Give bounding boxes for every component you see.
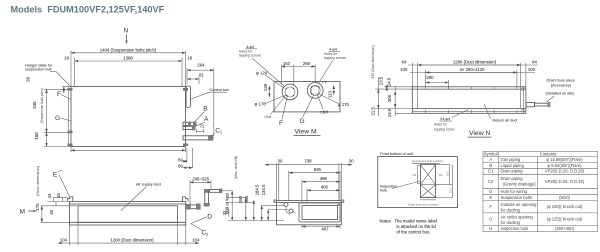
svg-text:738: 738 [304,158,312,163]
svg-text:134.5: 134.5 [261,184,266,195]
table frame [483,151,598,231]
drain pipe fittings [187,204,191,210]
unit body outline (front) [70,202,186,226]
svg-text:1200 (Duct dimension): 1200 (Duct dimension) [110,237,154,242]
unit body outline (plan) [71,87,186,147]
svg-text:530: 530 [32,101,37,109]
inset frame [378,157,458,208]
table text [484,151,585,231]
dim 1404 (Suspension bolts pitch) [71,52,186,54]
dim 280 (view N) [426,82,449,84]
square 90 knockout [312,87,319,94]
svg-text:28: 28 [26,77,31,82]
svg-text:23.5: 23.5 [445,171,449,177]
dim 28 (left) [63,87,65,94]
svg-text:18: 18 [64,56,69,61]
svg-text:30: 30 [278,158,283,163]
air supply duct flange [78,206,178,223]
side strip [418,166,421,184]
svg-text:264: 264 [197,63,205,68]
unit outline (view N) [412,87,526,114]
hanger bracket left (side) [274,200,277,202]
svg-text:Return air duct: Return air duct [493,118,519,122]
top band line [70,203,186,205]
svg-text:of the control box.: of the control box. [396,229,430,234]
svg-text:hole: hole [380,189,387,193]
svg-text:635: 635 [314,167,322,172]
column line value [537,157,539,232]
duct side edges [417,89,419,108]
svg-text:Air outlet opening: Air outlet opening [501,214,534,219]
svg-text:A: A [489,157,492,162]
svg-text:Contents: Contents [540,151,557,156]
knockout F circle outer [282,84,298,100]
svg-text:(M10): (M10) [559,195,570,200]
dim 152 / 265 [281,66,315,68]
svg-text:205: 205 [387,94,392,102]
drain riser pipe [205,192,209,206]
dims 59/69 below plan [186,148,188,162]
svg-text:104: 104 [60,237,68,242]
svg-text:(Installed on site): (Installed on site) [546,92,576,96]
dim 81 [187,78,199,80]
knockout F circle inner (dashed) [285,87,295,97]
svg-text:View N: View N [469,130,490,137]
svg-text:18: 18 [187,56,192,61]
svg-text:100: 100 [528,67,536,72]
svg-text:250: 250 [244,195,249,203]
svg-text:265: 265 [303,61,311,66]
svg-text:C1: C1 [488,169,494,174]
svg-text:Models FDUM100VF2,125VF,140VF: Models FDUM100VF2,125VF,140VF [11,4,165,14]
lid latch [338,204,340,206]
svg-text:Suspension bolts: Suspension bolts [501,195,533,200]
svg-text:(Suspension bolts position): (Suspension bolts position) [412,159,443,163]
svg-text:15: 15 [56,193,61,198]
svg-text:468: 468 [320,176,328,181]
unit body outline (side) [276,201,341,225]
dim 64/1280/64 (top) [408,64,538,66]
svg-text:64: 64 [532,60,537,65]
control box (plan) [186,86,191,108]
svg-text:Outside air opening: Outside air opening [501,202,538,207]
knockout G circle outer [307,83,323,99]
svg-text:(450×450): (450×450) [555,226,575,231]
svg-text:30: 30 [349,158,354,163]
svg-text:100: 100 [400,67,408,72]
svg-text:Drain piping: Drain piping [501,176,524,181]
svg-text:43: 43 [47,193,52,198]
svg-text:69: 69 [178,164,183,169]
svg-text:is attached on the lid: is attached on the lid [396,224,436,229]
svg-text:Air supply duct: Air supply duct [136,183,162,187]
svg-text:170: 170 [35,203,40,211]
svg-text:1404 (Suspension bolts pitch): 1404 (Suspension bolts pitch) [100,47,157,52]
row lines [483,156,598,158]
bottom dim line of plan view [71,149,186,151]
svg-text:tapping screw: tapping screw [434,128,455,132]
hanger bracket left (front) [67,197,73,202]
svg-text:1368: 1368 [123,56,133,61]
tapping holes top row [425,87,427,89]
svg-text:for ducting: for ducting [501,207,521,212]
svg-text:71: 71 [200,124,205,129]
svg-text:Hole: Hole [265,115,272,119]
tapping holes bottom row [425,110,427,113]
svg-text:45: 45 [49,209,54,214]
svg-text:139: 139 [263,83,268,91]
svg-text:295~325: 295~325 [192,176,209,181]
dim 467 (bottom of side view) [302,226,340,228]
svg-text:4-φ4: 4-φ4 [246,45,254,49]
svg-text:From bottom of unit: From bottom of unit [380,152,414,156]
ext lines left of view N [375,88,412,90]
drain stub (front, right) [186,205,199,209]
drain hose piece (view N) [523,87,525,114]
svg-text:φ 170: φ 170 [338,102,350,107]
svg-text:23.5: 23.5 [378,76,383,85]
svg-text:Drain hose piece: Drain hose piece [547,79,576,83]
hanger bracket right (side) [341,200,344,202]
svg-text:suspension bolt: suspension bolt [25,68,52,72]
svg-text:E: E [489,195,492,200]
svg-text:280: 280 [238,195,243,203]
svg-text:152: 152 [283,61,291,66]
flange top band [412,88,526,90]
hanger plate bottom-right [183,144,188,147]
piping stub A (plan) [183,126,195,129]
svg-text:(φ 150)( Knock out): (φ 150)( Knock out) [547,204,583,209]
knockout G circle inner (dashed) [310,85,320,95]
dim 468 [302,181,340,183]
svg-text:B: B [489,163,492,168]
svg-text:280: 280 [426,75,434,80]
side panel rect (view M) [274,82,340,112]
svg-text:Hole for wiring: Hole for wiring [501,189,528,194]
svg-text:(Accessory): (Accessory) [551,84,572,88]
svg-text:(Drain hose piece position): (Drain hose piece position) [408,203,439,207]
svg-text:Holes for: Holes for [434,123,448,127]
svg-text:for ducting: for ducting [501,220,521,225]
svg-text:D: D [207,213,212,220]
svg-text:□90: □90 [321,109,329,114]
dim 635 [289,172,340,174]
svg-text:(Duct dimension): (Duct dimension) [35,165,40,196]
svg-text:184.5: 184.5 [254,184,259,195]
tapping screw holes F [286,88,288,90]
svg-text:Drain piping: Drain piping [501,169,524,174]
svg-text:C1: C1 [439,173,443,177]
drain top horizontal pipe [210,189,220,192]
svg-text:(Suspension bolts pitch): (Suspension bolts pitch) [40,88,44,123]
svg-text:E: E [53,172,58,179]
piping circles (side) [284,203,288,207]
dims 30/738/30 (top of side view) [265,164,352,166]
svg-text:21.5: 21.5 [449,187,453,193]
svg-text:C1: C1 [413,173,417,177]
bottom dims 104 / 1200 / 104 [69,225,71,245]
hanger plate top-left [68,88,73,91]
svg-text:View M: View M [295,128,317,135]
svg-text:21.5: 21.5 [371,107,376,116]
tapping screw holes G [311,86,313,88]
svg-text:405: 405 [321,185,329,190]
hanger plate top-right [183,88,188,91]
svg-text:4× 280=1120: 4× 280=1120 [459,67,485,72]
svg-text:24.5: 24.5 [387,77,392,86]
svg-text:H: H [489,226,492,231]
svg-text:1280 (Duct dimension): 1280 (Duct dimension) [453,60,497,65]
svg-text:235 (Duct dimension): 235 (Duct dimension) [371,45,375,78]
hanger bracket right (front) [183,197,189,202]
dim 264 [187,69,214,71]
control box lid (side) [299,203,340,222]
svg-text:(Max. drain lift): (Max. drain lift) [234,156,238,179]
column line symbol [498,151,500,231]
svg-text:Gas piping: Gas piping [501,157,521,162]
svg-text:M: M [20,209,26,216]
svg-text:φ 15.88(5/8″)(Flare): φ 15.88(5/8″)(Flare) [546,157,583,162]
svg-text:4-φ4: 4-φ4 [329,48,337,52]
dim 530 (Suspension bolts pitch) vertical [46,89,48,132]
svg-text:(φ 125)( Knock out): (φ 125)( Knock out) [547,217,583,222]
svg-text:59: 59 [178,158,183,163]
drain stub C1 (plan) [183,136,213,140]
hanger plate bottom-left [68,131,73,134]
svg-text:φ 9.52(3/8″)(Flare): φ 9.52(3/8″)(Flare) [547,163,582,168]
svg-text:Notes The model name label: Notes The model name label [380,218,437,223]
inset right tiny dims [449,165,451,185]
svg-text:N: N [124,28,129,35]
svg-text:F: F [57,91,61,98]
svg-text:VP20(I.D.20, O.D.26): VP20(I.D.20, O.D.26) [545,169,585,174]
svg-text:C2: C2 [488,179,494,184]
svg-text:180: 180 [34,132,39,140]
svg-text:24.5: 24.5 [387,108,392,117]
svg-text:81: 81 [199,73,204,78]
svg-text:VP25(I.D.25, O.D.32): VP25(I.D.25, O.D.32) [545,179,585,184]
svg-text:Inspection hole: Inspection hole [501,226,530,231]
svg-text:467: 467 [321,227,329,232]
svg-text:Control box: Control box [210,88,230,92]
inspection hole rect with cross [420,165,435,198]
svg-text:14-φ4: 14-φ4 [440,117,450,121]
dim 100/1120/100 [410,72,535,74]
dim 180 vertical [46,132,48,146]
svg-text:tapping screws: tapping screws [324,56,346,60]
svg-text:B: B [203,106,208,113]
dim 1368 with 18/18 [75,60,183,62]
svg-text:Symbol: Symbol [484,151,498,156]
svg-text:tapping screws: tapping screws [239,54,261,58]
svg-text:D: D [489,189,492,194]
svg-text:73: 73 [426,196,430,200]
svg-text:600 or less: 600 or less [224,193,229,214]
svg-text:φ 124: φ 124 [256,71,268,76]
flange bottom band [412,108,526,110]
svg-text:Liquid piping: Liquid piping [501,163,525,168]
svg-text:G: G [55,115,60,122]
svg-text:(Gravity drainage): (Gravity drainage) [503,182,537,187]
piping stub B (plan) [183,122,196,125]
svg-text:64: 64 [402,60,407,65]
svg-text:G: G [300,118,305,125]
svg-text:104: 104 [192,237,200,242]
svg-text:113: 113 [327,90,332,97]
dim 405 [307,189,340,191]
svg-text:F: F [279,120,283,127]
svg-text:G: G [489,217,492,222]
